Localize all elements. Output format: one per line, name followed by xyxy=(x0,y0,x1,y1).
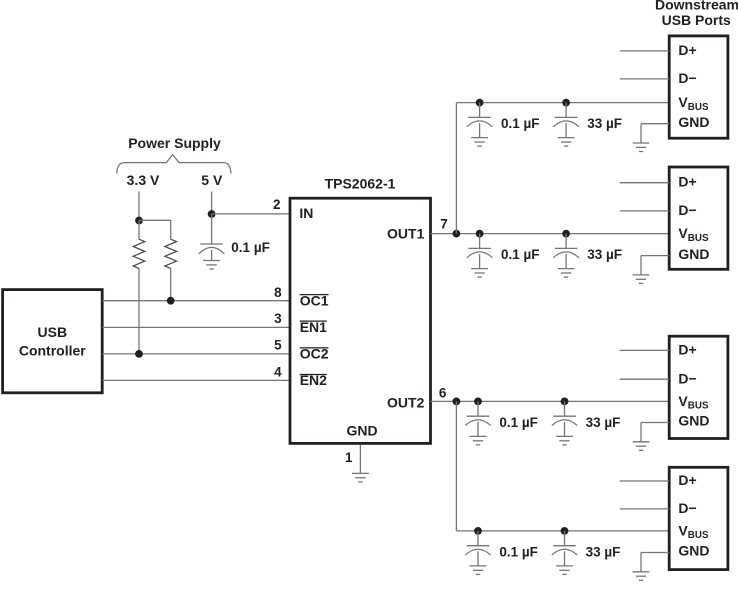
wire jog 3.3V to R2 top xyxy=(139,219,171,221)
wire OC1 (controller to pin 8) xyxy=(102,300,290,302)
svg-text:GND: GND xyxy=(346,423,377,439)
pin label EN1 (with overline) xyxy=(300,319,327,335)
svg-text:0.1 µF: 0.1 µF xyxy=(231,240,270,255)
svg-text:D+: D+ xyxy=(678,42,696,58)
brace under Power Supply xyxy=(117,155,231,174)
pin label EN2 (with overline) xyxy=(300,372,327,388)
pin label OC2 (with overline) xyxy=(300,346,329,362)
svg-text:0.1 µF: 0.1 µF xyxy=(499,415,538,430)
junction dot R1/OC2 xyxy=(135,350,143,358)
capacitor C7 33uF (port 3) xyxy=(552,398,578,437)
wire D+ (port 4) xyxy=(620,480,670,482)
svg-text:IN: IN xyxy=(299,205,313,221)
svg-text:0.1 µF: 0.1 µF xyxy=(499,544,538,559)
junction dot 3.3V node xyxy=(135,217,143,225)
wire D- (port 1) xyxy=(620,78,670,80)
ground of C3 33uF (port 1) xyxy=(558,138,575,147)
capacitor C4 0.1uF (port 2) xyxy=(467,230,493,269)
capacitor C3 33uF (port 1) xyxy=(553,99,579,138)
junction dot R2/OC1 xyxy=(167,297,175,305)
label USB Controller xyxy=(19,324,86,359)
wire OUT1 net (pin 7 to port 2 VBUS) xyxy=(431,233,670,235)
pin label VBUS (port 2) xyxy=(678,225,709,244)
wire port 1 VBUS xyxy=(456,102,669,104)
svg-text:TPS2062-1: TPS2062-1 xyxy=(325,175,396,191)
junction dot OUT2 branch xyxy=(453,398,461,406)
junction dot OUT1 branch xyxy=(453,230,461,238)
svg-text:USB Ports: USB Ports xyxy=(662,12,731,28)
capacitor C2 0.1uF (port 1) xyxy=(467,99,493,138)
svg-text:D−: D− xyxy=(678,371,696,387)
capacitor C9 33uF (port 4) xyxy=(552,527,578,566)
svg-text:D−: D− xyxy=(678,202,696,218)
wire OUT2 net (pin 6 to port 3 VBUS) xyxy=(431,400,670,402)
wire GND stub (port 4) xyxy=(641,552,669,554)
wire R1 top lead xyxy=(138,221,140,240)
USB port 1 box xyxy=(669,36,728,138)
svg-text:3.3 V: 3.3 V xyxy=(127,172,160,188)
ground of port 2 xyxy=(633,275,650,284)
svg-text:0.1 µF: 0.1 µF xyxy=(501,247,540,262)
ground of C7 33uF (port 3) xyxy=(556,436,573,445)
svg-text:4: 4 xyxy=(274,365,282,380)
wire EN1 (controller to pin 3) xyxy=(102,326,290,328)
wire OUT1 branch up to port 1 VBUS xyxy=(455,103,457,234)
wire port 4 VBUS xyxy=(456,530,669,532)
svg-text:D+: D+ xyxy=(678,341,696,357)
svg-text:1: 1 xyxy=(345,450,353,465)
svg-text:33 µF: 33 µF xyxy=(587,116,622,131)
svg-text:0.1 µF: 0.1 µF xyxy=(501,116,540,131)
svg-text:D−: D− xyxy=(678,70,696,86)
svg-text:33 µF: 33 µF xyxy=(586,415,621,430)
svg-text:D−: D− xyxy=(678,500,696,516)
svg-text:BUS: BUS xyxy=(688,233,709,244)
wire D- (port 4) xyxy=(620,508,670,510)
wire OUT2 branch down to port 4 VBUS xyxy=(455,401,457,531)
ground of C5 33uF (port 2) xyxy=(558,269,575,278)
ground of C2 0.1uF (port 1) xyxy=(471,138,488,147)
capacitor C8 0.1uF (port 4) xyxy=(465,527,491,566)
svg-text:GND: GND xyxy=(678,413,709,429)
svg-text:5 V: 5 V xyxy=(201,172,223,188)
resistor R2 xyxy=(165,239,177,268)
ground of C4 0.1uF (port 2) xyxy=(471,269,488,278)
svg-text:BUS: BUS xyxy=(688,102,709,113)
svg-text:GND: GND xyxy=(678,246,709,262)
ground of port 3 xyxy=(633,442,650,451)
capacitor C1 0.1uF (input) xyxy=(199,214,225,260)
wire R1 bottom lead to OC2 line xyxy=(138,268,140,354)
wire EN2 (controller to pin 4) xyxy=(102,379,290,381)
ground of port 1 xyxy=(633,143,650,152)
IC U1 TPS2062-1 box xyxy=(290,198,431,443)
wire GND stub (port 3) xyxy=(641,422,669,424)
USB port 3 box xyxy=(669,336,728,438)
ground of C1 xyxy=(203,261,220,270)
junction dot 5V/IN node xyxy=(208,210,216,218)
svg-text:33 µF: 33 µF xyxy=(586,544,621,559)
svg-text:7: 7 xyxy=(440,216,448,231)
USB port 2 box xyxy=(669,167,728,269)
svg-text:USB: USB xyxy=(38,324,68,340)
resistor R1 xyxy=(133,239,145,268)
svg-text:5: 5 xyxy=(274,338,282,353)
ground of port 4 xyxy=(633,572,650,581)
svg-text:Controller: Controller xyxy=(19,343,86,359)
USB Controller box xyxy=(3,290,103,393)
pin label OC1 (with overline) xyxy=(300,292,329,308)
svg-text:6: 6 xyxy=(439,386,447,401)
svg-text:2: 2 xyxy=(273,197,281,212)
ground of C9 33uF (port 4) xyxy=(556,566,573,575)
wire D- (port 2) xyxy=(620,210,670,212)
pin label VBUS (port 4) xyxy=(678,522,709,541)
wire D+ (port 1) xyxy=(620,50,670,52)
svg-text:3: 3 xyxy=(274,311,282,326)
capacitor C5 33uF (port 2) xyxy=(553,230,579,269)
wire pin 1 to ground xyxy=(359,445,361,474)
wire 5V stub xyxy=(211,192,213,215)
svg-text:GND: GND xyxy=(678,114,709,130)
wire R2 bottom lead to OC1 line xyxy=(170,268,172,300)
ground of C8 0.1uF (port 4) xyxy=(470,566,487,575)
pin label VBUS (port 1) xyxy=(678,94,709,113)
wire 5V to IN pin 2 xyxy=(212,213,290,215)
wire 3.3V stub xyxy=(138,192,140,221)
svg-text:OUT1: OUT1 xyxy=(387,226,425,242)
svg-text:Downstream: Downstream xyxy=(655,0,738,12)
svg-text:BUS: BUS xyxy=(688,401,709,412)
wire GND stub (port 2) xyxy=(641,255,669,257)
svg-text:Power Supply: Power Supply xyxy=(128,135,221,151)
svg-text:GND: GND xyxy=(678,543,709,559)
svg-text:D+: D+ xyxy=(678,174,696,190)
capacitor C6 0.1uF (port 3) xyxy=(465,398,491,437)
wire D+ (port 2) xyxy=(620,182,670,184)
wire D- (port 3) xyxy=(620,378,670,380)
USB port 4 box xyxy=(669,467,728,569)
ground of C6 0.1uF (port 3) xyxy=(470,436,487,445)
wire D+ (port 3) xyxy=(620,349,670,351)
svg-text:8: 8 xyxy=(274,285,282,300)
ground of pin 1 xyxy=(352,473,369,482)
wire OC2 (controller to pin 5) xyxy=(102,353,290,355)
svg-text:BUS: BUS xyxy=(688,530,709,541)
svg-text:OUT2: OUT2 xyxy=(387,395,425,411)
label Downstream USB Ports xyxy=(655,0,738,28)
pin label VBUS (port 3) xyxy=(678,393,709,412)
wire GND stub (port 1) xyxy=(641,123,669,125)
svg-text:D+: D+ xyxy=(678,472,696,488)
svg-text:33 µF: 33 µF xyxy=(587,247,622,262)
